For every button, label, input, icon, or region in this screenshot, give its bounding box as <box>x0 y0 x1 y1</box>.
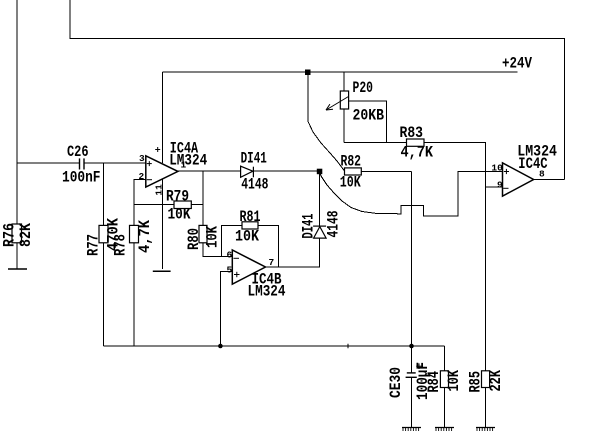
svg-text:DI41: DI41 <box>241 150 267 168</box>
svg-text:4,7K: 4,7K <box>401 144 434 162</box>
op-amp IC4C <box>503 163 534 196</box>
ground under CE30 <box>402 428 421 432</box>
resistor R85 <box>482 371 490 388</box>
resistor R77 <box>99 225 108 242</box>
op-amp IC4A V+ plus mark <box>155 149 160 151</box>
wire rail junction to R82 squiggle <box>308 72 345 171</box>
svg-text:R76: R76 <box>1 223 19 247</box>
svg-text:C26: C26 <box>67 143 89 161</box>
wire P20 top lead <box>343 72 345 91</box>
resistor R81 <box>242 222 258 229</box>
op-amp IC4A plus input mark <box>147 147 160 180</box>
op-amp IC4A <box>146 156 178 187</box>
diode DI41 vertical <box>313 226 326 238</box>
ground bar under R76 <box>8 268 27 270</box>
wire R84 bottom <box>444 388 446 428</box>
wire C26 to IC4A pin3 <box>84 162 146 164</box>
wire IC4B pin5 stub <box>220 271 232 346</box>
wire P20 wiper loop <box>349 101 387 143</box>
wire R79 right to output node <box>191 204 203 206</box>
svg-text:4148: 4148 <box>241 175 268 193</box>
wire P20 bottom lead <box>343 109 345 143</box>
capacitor CE30 plus sign <box>416 363 422 369</box>
wire R85 bottom <box>485 388 487 428</box>
capacitor CE30 <box>406 373 417 377</box>
op-amp IC4A minus input mark <box>147 179 152 181</box>
wire diode D1 to junction <box>253 170 319 172</box>
ground bar under IC4A pin11 <box>153 270 171 272</box>
resistor R80 <box>199 225 207 242</box>
svg-text:LM324: LM324 <box>169 151 207 169</box>
op-amp IC4B <box>232 250 265 284</box>
svg-text:10K: 10K <box>168 206 191 224</box>
wire IC4C output <box>534 179 565 181</box>
wire IC4A pin11 ground vertical <box>161 179 163 269</box>
resistor R82 <box>345 168 362 175</box>
wire output down to R80 <box>202 171 204 225</box>
svg-text:R82: R82 <box>341 152 362 170</box>
resistor R78 <box>130 225 139 242</box>
wire junction to IC4C pin10 squiggle <box>320 171 503 216</box>
wire IC4C pin9 stub <box>485 186 502 188</box>
svg-text:8: 8 <box>539 169 545 180</box>
svg-text:+24V: +24V <box>502 55 532 73</box>
wire IC4A pin2 stub <box>134 180 146 225</box>
svg-text:4148: 4148 <box>325 211 343 238</box>
svg-text:11: 11 <box>153 184 164 196</box>
wire IC4A V+ vertical <box>162 72 164 163</box>
svg-text:10K: 10K <box>340 173 361 191</box>
wire input to C26 <box>17 162 79 164</box>
svg-text:R80: R80 <box>185 228 203 250</box>
svg-text:100nF: 100nF <box>62 169 101 187</box>
op-amp IC4C input marks <box>503 169 509 188</box>
wire R76 top <box>16 163 18 224</box>
svg-text:7: 7 <box>269 257 275 268</box>
capacitor C26 <box>80 158 85 169</box>
resistor R84 <box>440 371 448 388</box>
node junction diode output <box>317 169 323 175</box>
svg-text:82K: 82K <box>17 223 35 247</box>
+24V rail <box>163 71 518 73</box>
resistor R83 <box>407 139 425 146</box>
ground under R84 <box>435 428 454 432</box>
wire R84 top corner <box>444 346 446 371</box>
svg-text:10K: 10K <box>204 226 222 248</box>
wire bottom rail <box>104 345 445 347</box>
resistor R76 <box>12 224 22 243</box>
wire R76 bottom <box>16 243 18 269</box>
svg-text:P20: P20 <box>353 79 374 97</box>
wire top feedback rail <box>70 0 565 180</box>
svg-text:2: 2 <box>139 171 145 182</box>
wire R81 right feedback <box>258 225 279 267</box>
node junction IC4B pin5 bottom rail <box>218 344 223 349</box>
wire R77 tap vertical <box>103 163 105 225</box>
svg-text:3: 3 <box>139 153 145 164</box>
svg-text:4,7K: 4,7K <box>136 220 154 253</box>
wire feedback to R79 <box>134 204 174 206</box>
wire IC4C pin10 horizontal <box>458 171 503 173</box>
wire diode D2 bottom to IC4B output <box>266 238 320 267</box>
ground under R85 <box>476 428 495 432</box>
svg-text:20KB: 20KB <box>353 107 385 125</box>
node junction CE30 bottom rail <box>409 344 414 349</box>
wire R83 right down to R85 <box>424 143 485 371</box>
wire R81 left vertical <box>222 225 243 256</box>
svg-text:R77: R77 <box>85 234 103 256</box>
svg-text:R83: R83 <box>400 124 424 142</box>
svg-text:R84: R84 <box>425 371 443 393</box>
svg-text:6: 6 <box>227 249 233 260</box>
wire R77 bottom vertical <box>103 243 105 346</box>
svg-text:9: 9 <box>497 179 503 190</box>
svg-text:10K: 10K <box>445 370 463 392</box>
svg-text:R85: R85 <box>467 371 485 393</box>
wire left input vertical <box>16 0 18 163</box>
wire R82 right to CE30 node <box>361 170 411 172</box>
svg-text:R79: R79 <box>166 188 189 206</box>
wire R78 bottom vertical <box>133 243 135 346</box>
wire CE30 node vertical <box>411 171 413 373</box>
diode DI41 horizontal <box>241 166 254 177</box>
svg-text:10K: 10K <box>235 228 259 246</box>
svg-text:DI41: DI41 <box>300 214 318 239</box>
potentiometer P20 body <box>340 91 348 109</box>
svg-text:CE30: CE30 <box>387 367 405 398</box>
resistor R79 <box>174 201 191 209</box>
node junction on +24V rail <box>305 70 311 76</box>
potentiometer P20 wiper arrow <box>326 97 349 111</box>
wire IC4A output <box>178 170 241 172</box>
svg-text:5: 5 <box>227 264 233 275</box>
svg-text:1: 1 <box>181 160 187 171</box>
svg-text:R81: R81 <box>240 208 261 226</box>
op-amp IC4B input marks <box>234 258 240 277</box>
svg-text:LM324: LM324 <box>248 283 286 301</box>
svg-text:R78: R78 <box>112 234 130 256</box>
node tick bottom rail <box>347 344 349 348</box>
wire P20 to R83 <box>344 142 407 144</box>
wire R80 bottom to IC4B pin6 <box>203 243 232 257</box>
wire CE30 bottom to ground <box>411 377 413 427</box>
wire junction down to diode D2 <box>319 171 321 226</box>
svg-text:10: 10 <box>491 163 503 174</box>
svg-text:22K: 22K <box>487 370 505 392</box>
